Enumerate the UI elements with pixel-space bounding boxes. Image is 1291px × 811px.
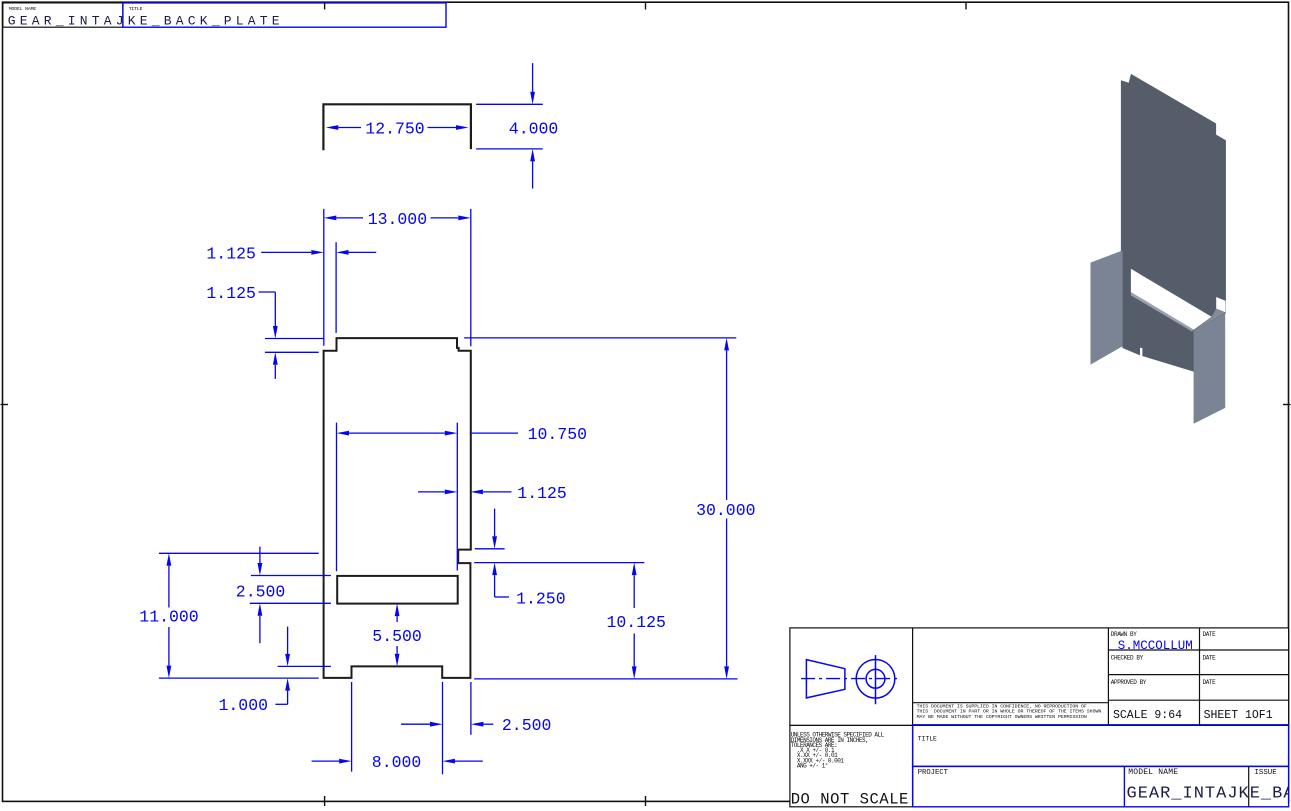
- dimension 2.500 left: [251, 575, 331, 577]
- dimension 2.500 bottom: [401, 723, 430, 725]
- svg-text:11.000: 11.000: [139, 608, 198, 627]
- svg-text:DATE: DATE: [1203, 654, 1217, 661]
- 3D view: slot opening (white): [1131, 269, 1212, 330]
- svg-text:1.000: 1.000: [219, 696, 269, 715]
- svg-text:ANG +/- 1°: ANG +/- 1°: [791, 763, 828, 770]
- svg-text:2.500: 2.500: [502, 716, 552, 735]
- svg-text:1.125: 1.125: [206, 244, 256, 263]
- svg-text:ISSUE: ISSUE: [1255, 769, 1278, 777]
- svg-text:THIS DOCUMENT IS SUPPLIED IN C: THIS DOCUMENT IS SUPPLIED IN CONFIDENCE,…: [917, 704, 1087, 710]
- svg-text:DRAWN BY: DRAWN BY: [1111, 631, 1137, 638]
- blue project row: [913, 766, 1289, 806]
- svg-text:DATE: DATE: [1203, 631, 1217, 638]
- header title box (blue): [123, 3, 446, 27]
- dimension 13.000: [323, 209, 325, 346]
- dimension 30.000: [464, 337, 736, 339]
- dimension 11.000: [159, 552, 319, 554]
- svg-text:10.125: 10.125: [607, 613, 666, 632]
- unless-otherwise box: [790, 725, 913, 806]
- svg-text:S.MCCOLLUM: S.MCCOLLUM: [1118, 639, 1193, 653]
- svg-text:13.000: 13.000: [368, 210, 427, 229]
- projection symbol centerlines: [801, 678, 898, 680]
- svg-text:APPROVED BY: APPROVED BY: [1111, 679, 1147, 686]
- svg-text:GEAR_INTAJKE_BACK_PLATE: GEAR_INTAJKE_BACK_PLATE: [1127, 785, 1291, 804]
- svg-text:8.000: 8.000: [372, 753, 422, 772]
- svg-text:10.750: 10.750: [528, 425, 587, 444]
- header model-name box: [3, 3, 123, 27]
- dimension 10.750: [336, 423, 338, 572]
- dimension 1.250: [475, 548, 505, 550]
- svg-text:CHECKED BY: CHECKED BY: [1111, 654, 1144, 661]
- dimension 1.000: [278, 665, 331, 667]
- svg-text:SHEET 1OF1: SHEET 1OF1: [1204, 709, 1273, 722]
- svg-text:DO NOT SCALE: DO NOT SCALE: [791, 791, 909, 809]
- front view part outline: [324, 338, 471, 678]
- dimension 5.500: [395, 604, 400, 617]
- svg-text:4.000: 4.000: [509, 120, 559, 139]
- svg-text:GEAR_INTAJKE_BACK_PLATE: GEAR_INTAJKE_BACK_PLATE: [8, 13, 284, 28]
- svg-text:SCALE 9:64: SCALE 9:64: [1113, 709, 1182, 722]
- svg-text:2.500: 2.500: [236, 582, 286, 601]
- 3D view: main dark plate face: [1121, 74, 1226, 372]
- issue divider: [1248, 766, 1250, 806]
- title block verticals: [912, 628, 914, 807]
- 3D view: right edge slot notch (white): [1216, 297, 1225, 312]
- svg-text:TITLE: TITLE: [129, 6, 143, 12]
- svg-text:1.250: 1.250: [516, 589, 566, 608]
- svg-text:TITLE: TITLE: [918, 735, 937, 742]
- projection symbol circles: [856, 660, 895, 699]
- svg-text:MODEL NAME: MODEL NAME: [9, 6, 37, 12]
- top view outline: [323, 104, 471, 150]
- svg-text:THIS DOCUMENT IN PART OR IN W: THIS DOCUMENT IN PART OR IN WHOLE OR THE…: [917, 709, 1102, 715]
- dimension 8.000: [351, 682, 353, 772]
- svg-text:1.125: 1.125: [517, 484, 567, 503]
- model name divider: [1123, 766, 1125, 806]
- 3D view: left flange: [1091, 250, 1123, 364]
- 3D view: right flange: [1194, 313, 1226, 423]
- blue title row: [913, 725, 1289, 767]
- svg-text:MODEL NAME: MODEL NAME: [1128, 768, 1178, 777]
- svg-text:MAY BE MADE WITHOUT THE COPYRI: MAY BE MADE WITHOUT THE COPYRIGHT OWNERS…: [917, 714, 1087, 720]
- dimension 12.750: [326, 125, 339, 130]
- 3D view: slot bottom inner face highlight: [1131, 292, 1194, 331]
- front view interior slot: [337, 576, 458, 604]
- svg-text:12.750: 12.750: [365, 120, 424, 139]
- dimension 4.000: [476, 103, 543, 105]
- svg-text:1.125: 1.125: [206, 284, 256, 303]
- svg-text:30.000: 30.000: [696, 501, 755, 520]
- third angle projection symbol: cone: [806, 660, 845, 698]
- svg-text:PROJECT: PROJECT: [918, 769, 949, 777]
- svg-text:5.500: 5.500: [372, 627, 422, 646]
- svg-text:DATE: DATE: [1203, 679, 1217, 686]
- 3D view: right inner wedge: [1194, 309, 1226, 331]
- dimension 1.125 right: [418, 491, 445, 493]
- dimension 10.125: [632, 563, 637, 576]
- title block horizontals: [1108, 649, 1288, 651]
- title block outer: [790, 628, 1289, 807]
